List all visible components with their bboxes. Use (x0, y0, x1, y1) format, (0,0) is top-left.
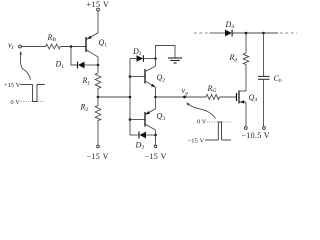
svg-text:0 V: 0 V (197, 119, 207, 126)
svg-text:D1: D1 (55, 60, 65, 70)
svg-text:Rd: Rd (229, 53, 238, 63)
svg-text:RG: RG (207, 84, 217, 94)
svg-text:+15 V: +15 V (4, 82, 21, 89)
svg-text:D2: D2 (132, 47, 142, 57)
svg-text:Q2: Q2 (157, 73, 166, 83)
svg-text:R1: R1 (82, 76, 91, 86)
svg-text:+15 V: +15 V (87, 0, 110, 9)
svg-text:Cb: Cb (274, 74, 282, 84)
svg-text:RB: RB (47, 33, 57, 43)
svg-text:0 V: 0 V (11, 99, 21, 106)
svg-text:D4: D4 (225, 20, 235, 30)
svg-text:Q1: Q1 (99, 38, 108, 48)
svg-text:Q4: Q4 (249, 93, 258, 103)
svg-text:D3: D3 (135, 140, 145, 150)
svg-text:R2: R2 (80, 103, 89, 113)
svg-text:Q3: Q3 (157, 112, 166, 122)
svg-text:−10.5 V: −10.5 V (242, 131, 270, 140)
svg-text:vI: vI (8, 41, 15, 51)
svg-text:−15 V: −15 V (87, 152, 109, 161)
svg-text:−15 V: −15 V (188, 137, 205, 144)
svg-text:−15 V: −15 V (145, 152, 167, 161)
svg-text:vg: vg (182, 86, 189, 96)
